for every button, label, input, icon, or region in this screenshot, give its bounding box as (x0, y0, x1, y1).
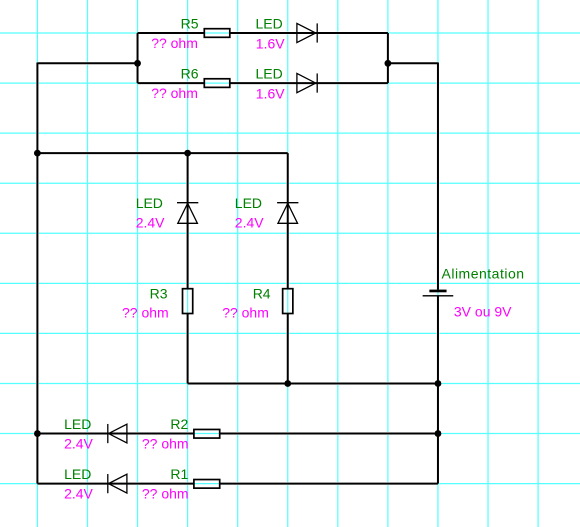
wire: R2 row right segment (220, 433, 438, 435)
wire: top feed from left rail corner to splitter (37, 62, 137, 64)
wire: merge vertical joining R5/R6 branches (387, 33, 389, 83)
resistor R2 (194, 429, 220, 438)
svg-text:LED: LED (256, 65, 283, 81)
node: bottom bus / branch B junction (284, 380, 291, 387)
svg-text:2.4V: 2.4V (235, 214, 264, 230)
node: left rail / R2 row junction (34, 430, 41, 437)
svg-text:LED: LED (136, 195, 163, 211)
LED D6 (second top branch, 1.6V) (297, 73, 317, 92)
svg-text:R3: R3 (150, 285, 168, 301)
node: middle bus / branch A junction (184, 150, 191, 157)
svg-text:1.6V: 1.6V (256, 85, 285, 101)
svg-text:3V ou 9V: 3V ou 9V (454, 303, 512, 319)
svg-text:1.6V: 1.6V (256, 35, 285, 51)
wire: R6 branch right segment through LED to merge (230, 82, 388, 84)
wire: splitter vertical joining R5/R6 branches (137, 33, 139, 83)
svg-text:2.4V: 2.4V (64, 435, 93, 451)
node: splitter junction (134, 60, 141, 67)
battery Alimentation (3V ou 9V) (423, 290, 454, 297)
LED D5 (top branch, 1.6V) (297, 23, 317, 42)
node: left rail / middle bus junction (34, 150, 41, 157)
wire: R6 branch left segment (138, 82, 205, 84)
wire: middle branch A upper, through LED (187, 153, 189, 289)
wire: middle bottom bus (188, 382, 438, 384)
svg-text:LED: LED (64, 416, 91, 432)
svg-text:R1: R1 (170, 466, 188, 482)
svg-text:2.4V: 2.4V (136, 214, 165, 230)
resistor R6 (204, 79, 230, 88)
wire: R1 row left segment through LED (37, 483, 194, 485)
svg-text:R5: R5 (181, 15, 199, 31)
svg-text:LED: LED (256, 15, 283, 31)
wire: right rail upper, to battery + plate (437, 63, 439, 290)
wire: left rail (36, 63, 38, 484)
svg-text:R6: R6 (181, 65, 199, 81)
wire: middle branch B upper, through LED (287, 153, 289, 289)
svg-text:Alimentation: Alimentation (442, 266, 525, 282)
node: merge junction (384, 60, 391, 67)
node: bottom bus / right rail junction (435, 380, 442, 387)
wire: R1 row right segment (220, 483, 438, 485)
wire: middle branch A lower (187, 314, 189, 384)
svg-text:?? ohm: ?? ohm (222, 305, 269, 321)
wire: middle branch B lower (287, 314, 289, 384)
svg-text:?? ohm: ?? ohm (151, 35, 198, 51)
LED D2 (R2 row, 2.4V, cathode left) (108, 424, 127, 443)
svg-text:2.4V: 2.4V (64, 485, 93, 501)
svg-text:LED: LED (235, 195, 262, 211)
svg-text:R4: R4 (253, 285, 271, 301)
LED D1 (R1 row, 2.4V, cathode left) (108, 474, 127, 493)
svg-text:?? ohm: ?? ohm (122, 305, 169, 321)
wire: R5 branch right segment through LED to merge (230, 32, 388, 34)
wire: middle top bus (37, 152, 287, 154)
node: right rail / R2 row junction (435, 430, 442, 437)
resistor R4 (283, 289, 293, 314)
svg-text:?? ohm: ?? ohm (142, 485, 189, 501)
wire: R5 branch left segment (138, 32, 205, 34)
resistor R5 (204, 29, 230, 38)
resistor R3 (183, 289, 193, 314)
svg-text:LED: LED (64, 466, 91, 482)
wire: right rail lower, from battery - plate (437, 296, 439, 483)
svg-text:R2: R2 (170, 416, 188, 432)
wire: R2 row left segment through LED (37, 433, 194, 435)
wire: merge junction to right rail (388, 62, 438, 64)
LED D4 (middle branch B, 2.4V, cathode up) (277, 203, 298, 224)
resistor R1 (194, 480, 220, 489)
LED D3 (middle branch A, 2.4V, cathode up) (177, 203, 198, 224)
svg-text:?? ohm: ?? ohm (151, 85, 198, 101)
svg-text:?? ohm: ?? ohm (142, 435, 189, 451)
